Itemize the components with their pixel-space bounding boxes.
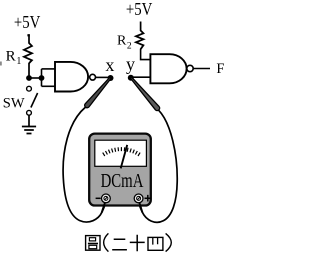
caption char er (two)	[112, 239, 127, 249]
switch SW top contact	[27, 86, 32, 91]
resistor R2	[136, 31, 143, 50]
meter body	[89, 134, 151, 206]
probe right	[130, 77, 159, 111]
terminal wire left	[102, 201, 106, 213]
svg-text:+5V: +5V	[126, 0, 152, 19]
wire gate1 top input	[42, 68, 56, 70]
terminal wire right	[139, 201, 143, 213]
wire U1 output to x	[96, 76, 111, 78]
U2 output bubble	[187, 65, 193, 71]
caption char si (four)	[148, 237, 163, 250]
NAND gate U1	[55, 62, 88, 92]
node x dot	[108, 75, 114, 81]
node junction dot B	[39, 75, 45, 81]
svg-text:F: F	[216, 61, 224, 77]
ground	[22, 127, 36, 134]
switch SW lever	[31, 93, 38, 108]
wire +5V to R1	[28, 34, 30, 43]
switch SW bottom contact	[27, 110, 32, 115]
label plus	[145, 195, 152, 202]
terminal right	[134, 194, 143, 203]
svg-text:2: 2	[127, 42, 132, 52]
edge mark	[0, 62, 2, 66]
node junction dot A	[26, 75, 32, 81]
probe left	[85, 77, 112, 108]
wire R1 to node	[28, 63, 30, 78]
svg-text:SW: SW	[3, 95, 25, 111]
node y dot	[128, 75, 134, 81]
svg-text:+5V: +5V	[14, 12, 40, 32]
meter wire left loop	[63, 107, 106, 222]
NAND gate U2	[150, 54, 186, 83]
wire input tie	[41, 69, 43, 86]
meter needle	[121, 145, 128, 169]
caption char shi (ten)	[130, 235, 145, 252]
caption open paren	[104, 233, 109, 251]
svg-text:R: R	[6, 49, 16, 65]
meter display	[95, 140, 147, 166]
resistor R1	[24, 43, 32, 63]
svg-text:R: R	[117, 34, 127, 49]
wire R2 to gate2 top input	[141, 49, 151, 60]
meter wire right loop	[139, 110, 177, 222]
meter scale ticks	[103, 147, 140, 156]
label minus	[96, 197, 101, 199]
svg-text:x: x	[105, 55, 114, 75]
terminal left	[102, 194, 111, 203]
svg-text:DCmA: DCmA	[101, 170, 144, 192]
wire U2 output to F	[193, 68, 210, 70]
wire gate1 bottom input	[42, 85, 56, 87]
wire node A to node B	[29, 77, 42, 79]
caption close paren	[166, 233, 172, 251]
wire +5V to R2	[140, 22, 142, 32]
U1 output bubble	[90, 74, 96, 80]
wire node y to gate2 bottom input	[131, 76, 151, 78]
wire switch to ground	[28, 115, 30, 126]
svg-text:1: 1	[16, 56, 21, 67]
caption char tu (figure)	[86, 236, 100, 251]
svg-text:y: y	[126, 54, 135, 74]
